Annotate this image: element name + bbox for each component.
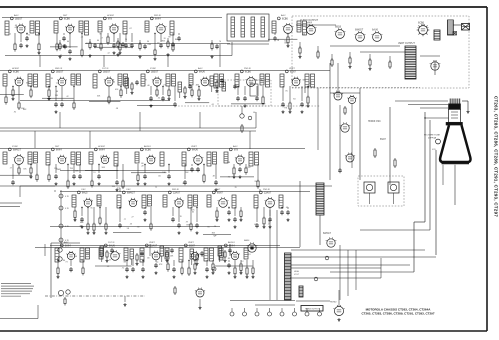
svg-text:6BQ6: 6BQ6 bbox=[335, 26, 342, 29]
svg-text:.34: .34 bbox=[158, 97, 161, 99]
svg-text:CT265, CT283, CT286, CT289, CT: CT265, CT283, CT286, CT289, CT291, CT293… bbox=[361, 312, 434, 316]
svg-text:.67: .67 bbox=[129, 28, 132, 30]
svg-text:1ST IF: 1ST IF bbox=[108, 242, 115, 244]
svg-text:.72: .72 bbox=[122, 267, 125, 269]
svg-text:1B3GT: 1B3GT bbox=[15, 18, 23, 20]
svg-text:70: 70 bbox=[219, 41, 221, 43]
svg-text:20: 20 bbox=[26, 37, 28, 39]
svg-text:AUDIO: AUDIO bbox=[228, 241, 235, 244]
svg-text:6SN7: 6SN7 bbox=[380, 139, 386, 141]
svg-text:73: 73 bbox=[65, 262, 67, 264]
svg-text:.18: .18 bbox=[276, 40, 279, 42]
svg-text:6CB6: 6CB6 bbox=[64, 18, 70, 20]
svg-text:43: 43 bbox=[81, 260, 83, 262]
svg-text:6AU6: 6AU6 bbox=[192, 148, 198, 151]
svg-text:88: 88 bbox=[144, 79, 146, 81]
svg-text:6SN7: 6SN7 bbox=[217, 192, 223, 194]
svg-text:6AX4: 6AX4 bbox=[244, 239, 250, 242]
svg-text:6AX4: 6AX4 bbox=[155, 17, 161, 20]
svg-text:19: 19 bbox=[93, 172, 95, 174]
svg-text:60: 60 bbox=[97, 40, 99, 42]
svg-text:.97: .97 bbox=[183, 162, 186, 164]
svg-text:30: 30 bbox=[147, 41, 149, 43]
svg-text:PICTURE TUBE: PICTURE TUBE bbox=[424, 135, 441, 137]
svg-text:.11: .11 bbox=[94, 85, 97, 87]
svg-text:50: 50 bbox=[284, 41, 286, 43]
svg-text:6CB6: 6CB6 bbox=[245, 71, 251, 73]
svg-text:6W6GT: 6W6GT bbox=[13, 149, 22, 151]
svg-text:.70: .70 bbox=[179, 216, 182, 218]
svg-text:.45: .45 bbox=[200, 254, 203, 256]
svg-text:98: 98 bbox=[168, 37, 170, 39]
svg-text:6AX4: 6AX4 bbox=[65, 244, 71, 247]
svg-text:.72: .72 bbox=[156, 262, 159, 264]
svg-text:48: 48 bbox=[213, 175, 215, 177]
svg-text:6AU6: 6AU6 bbox=[372, 29, 379, 32]
svg-text:.46: .46 bbox=[147, 85, 150, 87]
svg-text:.53: .53 bbox=[129, 224, 132, 226]
svg-text:.36: .36 bbox=[85, 43, 88, 45]
svg-text:71: 71 bbox=[155, 187, 157, 189]
svg-text:SYNC: SYNC bbox=[150, 68, 156, 70]
svg-text:6AU6: 6AU6 bbox=[109, 244, 115, 247]
svg-text:.79: .79 bbox=[185, 222, 188, 224]
svg-text:DET: DET bbox=[55, 146, 60, 148]
svg-text:VERT: VERT bbox=[289, 68, 295, 70]
svg-text:12AU7: 12AU7 bbox=[173, 191, 181, 194]
svg-text:.87: .87 bbox=[309, 83, 312, 85]
svg-text:.62: .62 bbox=[286, 33, 289, 35]
svg-text:.80: .80 bbox=[147, 258, 150, 260]
svg-text:37: 37 bbox=[109, 260, 111, 262]
svg-text:6CB6: 6CB6 bbox=[282, 18, 288, 20]
svg-text:35: 35 bbox=[90, 208, 92, 210]
svg-text:27: 27 bbox=[132, 216, 134, 218]
svg-text:76: 76 bbox=[129, 45, 131, 47]
svg-text:OSC: OSC bbox=[81, 189, 86, 191]
svg-text:.17: .17 bbox=[100, 37, 103, 39]
svg-text:35: 35 bbox=[90, 200, 92, 202]
svg-text:AGC: AGC bbox=[233, 145, 238, 148]
svg-text:95: 95 bbox=[255, 181, 257, 183]
svg-text:83: 83 bbox=[100, 34, 102, 36]
svg-text:HORIZ: HORIZ bbox=[98, 146, 105, 148]
svg-text:.57: .57 bbox=[17, 165, 20, 167]
svg-text:HORIZ: HORIZ bbox=[330, 302, 337, 304]
svg-text:VERT: VERT bbox=[149, 242, 155, 244]
svg-text:6W6GT: 6W6GT bbox=[323, 233, 332, 235]
svg-text:.14: .14 bbox=[278, 200, 281, 202]
svg-text:.61: .61 bbox=[14, 27, 17, 29]
svg-text:.27: .27 bbox=[171, 81, 174, 83]
svg-text:60: 60 bbox=[67, 41, 69, 43]
svg-text:SND IF: SND IF bbox=[55, 68, 63, 70]
svg-text:VERT: VERT bbox=[191, 146, 197, 148]
svg-text:.10: .10 bbox=[123, 260, 126, 262]
svg-text:3RD IF: 3RD IF bbox=[154, 15, 162, 17]
svg-text:.21: .21 bbox=[107, 266, 110, 268]
svg-text:.49: .49 bbox=[141, 165, 144, 167]
svg-text:VOLT: VOLT bbox=[294, 274, 300, 276]
svg-text:12AU7: 12AU7 bbox=[150, 244, 158, 247]
svg-text:.45: .45 bbox=[286, 207, 289, 209]
svg-text:AUDIO OUTPUT: AUDIO OUTPUT bbox=[300, 19, 319, 22]
svg-text:.86: .86 bbox=[74, 256, 77, 258]
svg-text:6AX4: 6AX4 bbox=[99, 148, 105, 151]
svg-text:67: 67 bbox=[202, 256, 204, 258]
svg-text:1ST IF: 1ST IF bbox=[102, 68, 109, 70]
svg-text:53: 53 bbox=[207, 85, 209, 87]
svg-text:AGC: AGC bbox=[64, 241, 69, 244]
svg-text:58: 58 bbox=[127, 228, 129, 230]
svg-text:6AU6: 6AU6 bbox=[199, 70, 205, 73]
svg-text:1B3GT: 1B3GT bbox=[151, 71, 159, 73]
svg-text:HORIZ: HORIZ bbox=[107, 15, 114, 17]
svg-text:6CB6: 6CB6 bbox=[145, 149, 151, 151]
svg-text:AGC: AGC bbox=[14, 14, 19, 17]
svg-text:6CB6: 6CB6 bbox=[13, 71, 19, 73]
svg-text:80: 80 bbox=[175, 39, 177, 41]
svg-text:6SN7: 6SN7 bbox=[189, 245, 195, 247]
svg-text:6AL5: 6AL5 bbox=[82, 191, 88, 194]
svg-text:50: 50 bbox=[125, 39, 127, 41]
svg-text:3RD IF: 3RD IF bbox=[172, 189, 180, 191]
svg-text:HORIZ OUTPUT: HORIZ OUTPUT bbox=[305, 309, 319, 311]
svg-text:2ND IF: 2ND IF bbox=[244, 68, 252, 70]
svg-text:6W6GT: 6W6GT bbox=[355, 29, 364, 32]
svg-text:.12: .12 bbox=[107, 53, 110, 55]
svg-text:77: 77 bbox=[185, 165, 187, 167]
svg-text:.71: .71 bbox=[163, 84, 166, 86]
svg-text:.24: .24 bbox=[302, 33, 305, 35]
svg-text:.26: .26 bbox=[182, 183, 185, 185]
svg-text:.37: .37 bbox=[73, 26, 76, 28]
svg-text:AGC: AGC bbox=[198, 67, 203, 70]
svg-text:12AU7: 12AU7 bbox=[264, 191, 272, 194]
svg-text:DET: DET bbox=[216, 189, 221, 191]
svg-text:CT263, CT283, CT286, CT289, CT: CT263, CT283, CT286, CT289, CT291, CT293… bbox=[494, 96, 499, 217]
svg-text:.67: .67 bbox=[30, 159, 33, 161]
svg-text:.12: .12 bbox=[8, 34, 11, 36]
svg-text:.77: .77 bbox=[123, 219, 126, 221]
svg-text:.30: .30 bbox=[137, 227, 140, 229]
svg-text:77: 77 bbox=[56, 83, 58, 85]
svg-text:ION: ION bbox=[432, 149, 436, 151]
svg-text:6SN7: 6SN7 bbox=[290, 71, 296, 73]
svg-text:66: 66 bbox=[253, 112, 255, 114]
svg-text:1B3GT: 1B3GT bbox=[103, 71, 111, 73]
svg-text:.66: .66 bbox=[158, 176, 161, 178]
svg-text:HORIZ OSC: HORIZ OSC bbox=[368, 121, 381, 123]
svg-text:AUDIO: AUDIO bbox=[144, 145, 151, 148]
svg-text:52: 52 bbox=[68, 25, 70, 27]
svg-text:.58: .58 bbox=[115, 108, 118, 110]
svg-text:21FP4A: 21FP4A bbox=[428, 137, 436, 140]
svg-text:.75: .75 bbox=[28, 35, 31, 37]
svg-text:48: 48 bbox=[228, 258, 230, 260]
svg-text:AGC: AGC bbox=[281, 14, 286, 17]
svg-text:.59: .59 bbox=[33, 82, 36, 84]
svg-text:DET: DET bbox=[63, 15, 68, 17]
svg-text:6AX4: 6AX4 bbox=[56, 148, 62, 151]
svg-text:.66: .66 bbox=[29, 177, 32, 179]
svg-text:.96: .96 bbox=[227, 177, 230, 179]
svg-text:70: 70 bbox=[235, 187, 237, 189]
svg-text:84: 84 bbox=[293, 98, 295, 100]
svg-text:1B3GT: 1B3GT bbox=[56, 71, 64, 73]
svg-text:HORIZ: HORIZ bbox=[12, 68, 19, 70]
svg-text:SYNC: SYNC bbox=[12, 146, 18, 148]
svg-text:65: 65 bbox=[192, 212, 194, 214]
svg-text:VERT OUTPUT: VERT OUTPUT bbox=[398, 42, 415, 45]
svg-text:12: 12 bbox=[241, 261, 243, 263]
svg-text:13: 13 bbox=[117, 188, 119, 190]
svg-text:42: 42 bbox=[254, 224, 256, 226]
svg-text:VERT: VERT bbox=[188, 242, 194, 244]
svg-text:.76: .76 bbox=[193, 261, 196, 263]
svg-text:27: 27 bbox=[10, 167, 12, 169]
svg-text:6CB6: 6CB6 bbox=[418, 22, 425, 25]
svg-text:.92: .92 bbox=[13, 111, 16, 113]
svg-text:42: 42 bbox=[66, 96, 68, 98]
svg-text:2ND IF: 2ND IF bbox=[263, 189, 271, 191]
svg-text:.61: .61 bbox=[248, 254, 251, 256]
svg-text:.21: .21 bbox=[81, 37, 84, 39]
svg-text:36: 36 bbox=[56, 91, 58, 93]
svg-text:84: 84 bbox=[113, 82, 115, 84]
svg-text:.95: .95 bbox=[285, 90, 288, 92]
svg-text:OSC: OSC bbox=[126, 189, 131, 191]
svg-text:6W6GT: 6W6GT bbox=[127, 192, 136, 194]
svg-text:HIGH: HIGH bbox=[294, 271, 300, 273]
